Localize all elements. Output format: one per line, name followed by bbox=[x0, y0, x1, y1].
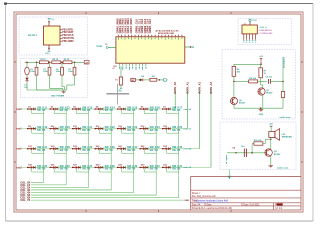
svg-text:SW_PB: SW_PB bbox=[127, 110, 136, 112]
svg-text:audio_in: audio_in bbox=[225, 155, 227, 165]
svg-text:SW_K22: SW_K22 bbox=[105, 126, 116, 129]
key hook wire bbox=[121, 110, 123, 114]
power flag bbox=[249, 21, 251, 25]
key hook wire bbox=[31, 150, 33, 154]
column wire 7 bbox=[178, 114, 180, 198]
U1 bottom pin bbox=[48, 45, 50, 51]
U2 bottom pins bbox=[119, 63, 121, 66]
column wire 5 bbox=[133, 114, 135, 193]
key hook wire bbox=[31, 110, 33, 114]
svg-text:SW_PB: SW_PB bbox=[60, 110, 69, 112]
key hook wire bbox=[76, 129, 78, 133]
svg-text:SW_K35: SW_K35 bbox=[37, 165, 48, 168]
svg-text:row2: row2 bbox=[16, 149, 22, 151]
svg-text:Id: 1/1: Id: 1/1 bbox=[276, 207, 283, 210]
svg-text:SW_K13: SW_K13 bbox=[82, 106, 93, 109]
svg-text:USB_B: USB_B bbox=[260, 27, 268, 29]
hier arrow under gnd tail bbox=[228, 176, 231, 179]
svg-text:VCC: VCC bbox=[51, 19, 56, 21]
capacitor C4 bbox=[61, 62, 63, 64]
svg-text:SW_PB: SW_PB bbox=[105, 150, 114, 152]
svg-text:PB1 INTB: PB1 INTB bbox=[62, 29, 73, 31]
U2 top pin numbers bbox=[117, 35, 119, 37]
diode D4 bbox=[139, 79, 140, 80]
svg-text:SW_PB: SW_PB bbox=[82, 110, 91, 112]
key hook wire bbox=[143, 110, 145, 114]
svg-text:SW_PB: SW_PB bbox=[37, 110, 46, 112]
col bus wire 5 bbox=[31, 192, 134, 194]
svg-text:SW_K14: SW_K14 bbox=[105, 106, 116, 109]
svg-text:row1: row1 bbox=[16, 129, 22, 131]
svg-text:SW_PB: SW_PB bbox=[127, 169, 136, 171]
svg-text:PWR: PWR bbox=[252, 20, 257, 22]
svg-text:SW_K33: SW_K33 bbox=[172, 146, 183, 149]
svg-text:USB-MINI-B: USB-MINI-B bbox=[260, 30, 273, 32]
ground bbox=[63, 90, 65, 92]
capacitor C2 bbox=[36, 62, 38, 64]
svg-text:SW_K24: SW_K24 bbox=[150, 126, 161, 129]
svg-text:SW_K37: SW_K37 bbox=[82, 165, 93, 168]
svg-text:GPB5_CL5: GPB5_CL5 bbox=[148, 18, 152, 33]
svg-text:SW_PB: SW_PB bbox=[172, 150, 181, 152]
row wire 3 bbox=[199, 90, 201, 148]
row line 3 bbox=[21, 148, 200, 150]
column wire 3 bbox=[88, 114, 90, 188]
col bus wire 7 bbox=[31, 197, 179, 199]
svg-text:100n: 100n bbox=[56, 71, 61, 73]
svg-text:row0: row0 bbox=[16, 109, 22, 111]
IC U1 body bbox=[44, 26, 61, 45]
wire bbox=[157, 79, 164, 81]
svg-text:SW_PB: SW_PB bbox=[37, 130, 46, 132]
U1 right pin labels bbox=[60, 29, 62, 31]
svg-text:R10 10k: R10 10k bbox=[254, 140, 262, 142]
key hook wire bbox=[53, 129, 55, 133]
svg-text:SW_PB: SW_PB bbox=[82, 169, 91, 171]
row line 2 bbox=[21, 128, 188, 130]
key hook wire bbox=[143, 129, 145, 133]
global label INT bbox=[131, 78, 136, 81]
column wire 6 bbox=[155, 114, 157, 195]
wire up with label bbox=[282, 57, 284, 81]
svg-text:row_k0: row_k0 bbox=[184, 109, 192, 111]
frame ticks bbox=[85, 12, 87, 14]
svg-text:SW_PB: SW_PB bbox=[60, 169, 69, 171]
svg-text:SW_PB: SW_PB bbox=[172, 130, 181, 132]
svg-text:SW_PB: SW_PB bbox=[82, 130, 91, 132]
hier label arrow bbox=[164, 79, 168, 82]
svg-text:100n: 100n bbox=[68, 71, 73, 73]
svg-text:GND: GND bbox=[259, 114, 264, 116]
svg-text:SW_K19: SW_K19 bbox=[37, 126, 48, 129]
capacitor C1 electrolytic bbox=[26, 62, 28, 67]
transistor Q3 bbox=[265, 149, 272, 156]
key hook wire bbox=[53, 168, 55, 172]
key hook wire bbox=[166, 110, 168, 114]
svg-text:+5V: +5V bbox=[269, 124, 273, 126]
capacitor C8 bbox=[243, 149, 245, 158]
svg-text:SW_K32: SW_K32 bbox=[150, 146, 161, 149]
svg-text:R2 10: R2 10 bbox=[53, 59, 59, 61]
resistor R7 bbox=[260, 64, 262, 68]
svg-text:SW_PB: SW_PB bbox=[105, 169, 114, 171]
svg-text:SW_K23: SW_K23 bbox=[127, 126, 138, 129]
key hook wire bbox=[143, 168, 145, 172]
svg-text:SW_PB: SW_PB bbox=[127, 130, 136, 132]
resistor R8 bbox=[249, 80, 258, 83]
key hook wire bbox=[121, 150, 123, 154]
svg-text:SW_K39: SW_K39 bbox=[127, 165, 138, 168]
svg-text:SW_K20: SW_K20 bbox=[60, 126, 71, 129]
gnd tail wire bbox=[228, 170, 230, 178]
ground box5 bbox=[269, 165, 274, 167]
page edge bbox=[5, 3, 313, 5]
title block bbox=[191, 175, 301, 177]
row wire 1 bbox=[174, 90, 176, 109]
row wire 2 bbox=[187, 90, 189, 128]
svg-text:C6 10n: C6 10n bbox=[266, 77, 273, 79]
svg-text:Monome keyboard clone 4x8: Monome keyboard clone 4x8 bbox=[196, 200, 229, 203]
key hook wire bbox=[98, 168, 100, 172]
power symbol top of U1 bbox=[48, 22, 50, 27]
svg-text:SW_K15: SW_K15 bbox=[127, 106, 138, 109]
svg-text:SW_K41: SW_K41 bbox=[172, 165, 183, 168]
svg-text:row_k3: row_k3 bbox=[184, 167, 192, 169]
wire left branch bbox=[233, 76, 235, 97]
bottom wire bbox=[233, 104, 235, 108]
svg-text:+5V: +5V bbox=[259, 56, 263, 58]
diode D1 bbox=[26, 75, 28, 78]
svg-text:CONN-USB2: CONN-USB2 bbox=[260, 33, 274, 35]
svg-text:GND: GND bbox=[184, 200, 189, 202]
col bus wire 3 bbox=[31, 186, 89, 188]
svg-text:SW_K25: SW_K25 bbox=[172, 126, 183, 129]
group box usb bbox=[238, 19, 291, 45]
resistor R5 bbox=[150, 78, 157, 81]
svg-text:SW_K27: SW_K27 bbox=[37, 146, 48, 149]
key hook wire bbox=[31, 129, 33, 133]
key hook wire bbox=[121, 168, 123, 172]
svg-text:SW_K36: SW_K36 bbox=[60, 165, 71, 168]
top wire bbox=[234, 63, 261, 65]
col bus wire 6 bbox=[31, 194, 156, 196]
label +5V bbox=[84, 61, 89, 64]
svg-text:GPA5_RW5: GPA5_RW5 bbox=[129, 18, 133, 34]
U2 right pin bbox=[185, 46, 191, 48]
row line 1 bbox=[21, 108, 175, 110]
transistor Q2 bbox=[230, 97, 237, 104]
svg-text:GND: GND bbox=[45, 53, 50, 55]
svg-text:audio amp: audio amp bbox=[280, 117, 292, 119]
frame border outer bbox=[14, 12, 303, 212]
key hook wire bbox=[166, 150, 168, 154]
IC U2 body bbox=[116, 37, 185, 63]
key hook wire bbox=[53, 110, 55, 114]
svg-text:R1 10: R1 10 bbox=[40, 59, 46, 61]
capacitor C6 bbox=[267, 79, 269, 84]
svg-text:SW_K30: SW_K30 bbox=[105, 146, 116, 149]
svg-text:SW_PB: SW_PB bbox=[105, 110, 114, 112]
svg-text:SW_PB: SW_PB bbox=[60, 150, 69, 152]
key hook wire bbox=[98, 110, 100, 114]
resistor R3 bbox=[63, 61, 72, 64]
group box power filter bbox=[20, 58, 88, 97]
key hook wire bbox=[98, 150, 100, 154]
collector wire bbox=[270, 139, 272, 149]
svg-text:SW_K17: SW_K17 bbox=[172, 106, 183, 109]
svg-text:row_k2: row_k2 bbox=[184, 149, 192, 151]
svg-text:SW_PB: SW_PB bbox=[150, 110, 159, 112]
resistor R4 vertical bbox=[120, 66, 122, 77]
svg-text:SW_K11: SW_K11 bbox=[37, 106, 47, 109]
svg-text:File: kbd_monome.sch: File: kbd_monome.sch bbox=[192, 195, 217, 198]
resistor R1 bbox=[39, 61, 48, 64]
U2 top pin names bbox=[117, 38, 119, 40]
svg-text:100n: 100n bbox=[43, 71, 48, 73]
row wire 4 bbox=[210, 90, 212, 167]
col bus wire 2 bbox=[31, 184, 66, 186]
resistor R6 bbox=[233, 64, 235, 66]
svg-text:SW_PB: SW_PB bbox=[60, 130, 69, 132]
svg-text:SW_K16: SW_K16 bbox=[150, 106, 161, 109]
speaker LS1 bbox=[269, 132, 275, 138]
key hook wire bbox=[53, 150, 55, 154]
svg-text:SW_K12: SW_K12 bbox=[60, 106, 71, 109]
svg-text:100n: 100n bbox=[30, 71, 35, 73]
col bus wire 8 bbox=[31, 199, 184, 201]
key hook wire bbox=[31, 168, 33, 172]
resistor R9 vertical bbox=[282, 81, 284, 91]
gnd return wires bbox=[36, 79, 38, 90]
key hook wire bbox=[98, 129, 100, 133]
svg-text:Rev:: Rev: bbox=[275, 204, 280, 206]
transistor Q1 bbox=[258, 88, 265, 95]
svg-text:SW_PB: SW_PB bbox=[172, 169, 181, 171]
svg-text:SW_PB: SW_PB bbox=[127, 150, 136, 152]
svg-text:SW_PB: SW_PB bbox=[82, 150, 91, 152]
capacitor C3 bbox=[49, 62, 51, 64]
svg-text:SW_K21: SW_K21 bbox=[82, 126, 93, 129]
key hook wire bbox=[166, 129, 168, 133]
svg-text:Sheet: /: Sheet: / bbox=[192, 192, 201, 195]
svg-text:SW_PB: SW_PB bbox=[105, 130, 114, 132]
ground box4 bbox=[259, 109, 264, 111]
key hook wire bbox=[76, 150, 78, 154]
svg-text:SW_K28: SW_K28 bbox=[60, 146, 71, 149]
column wire 4 bbox=[110, 114, 112, 190]
key hook wire bbox=[143, 150, 145, 154]
svg-text:SW_PB: SW_PB bbox=[37, 169, 46, 171]
svg-text:KiCad E.D.A. eeschema (2010-1: KiCad E.D.A. eeschema (2010-11-30) bbox=[192, 207, 232, 210]
wire bbox=[143, 79, 150, 81]
svg-text:R8 10k: R8 10k bbox=[250, 78, 257, 80]
key hook wire bbox=[76, 110, 78, 114]
svg-text:SW_PB: SW_PB bbox=[172, 110, 181, 112]
svg-text:SW_K40: SW_K40 bbox=[150, 165, 161, 168]
svg-text:row3: row3 bbox=[16, 167, 22, 169]
cursor crosshair bbox=[106, 93, 129, 95]
svg-text:GND_POWER: GND_POWER bbox=[51, 95, 65, 97]
key hook wire bbox=[76, 168, 78, 172]
svg-text:SW_PB: SW_PB bbox=[150, 169, 159, 171]
key hook wire bbox=[166, 168, 168, 172]
frame border inner bbox=[16, 14, 301, 210]
svg-text:PB3 SCLK: PB3 SCLK bbox=[62, 35, 74, 37]
resistor R2 bbox=[52, 61, 61, 64]
svg-text:xx: xx bbox=[119, 90, 121, 92]
svg-text:R3 10: R3 10 bbox=[64, 59, 70, 61]
svg-text:SW_K29: SW_K29 bbox=[82, 146, 93, 149]
capacitor C5 bbox=[74, 62, 76, 64]
wire bbox=[135, 79, 139, 81]
svg-text:SW_K38: SW_K38 bbox=[105, 165, 116, 168]
group box U1 module bbox=[19, 17, 88, 55]
U2 left pin reset bbox=[109, 47, 116, 49]
col bus wire 1 bbox=[31, 181, 44, 183]
svg-text:SW_PB: SW_PB bbox=[150, 150, 159, 152]
audio input wire bbox=[227, 152, 265, 154]
group box oscillator bbox=[222, 50, 295, 119]
group box speaker bbox=[220, 122, 296, 170]
row line 4 bbox=[21, 166, 211, 168]
key hook wire bbox=[121, 129, 123, 133]
resistor R10 feedback bbox=[251, 144, 253, 153]
J1 pins bbox=[243, 34, 245, 40]
column wire 2 bbox=[65, 114, 67, 185]
svg-text:row_k1: row_k1 bbox=[184, 128, 192, 130]
column wire 1 bbox=[43, 114, 45, 183]
svg-text:SW_PB: SW_PB bbox=[150, 130, 159, 132]
svg-text:SW_PB: SW_PB bbox=[37, 150, 46, 152]
col bus wire 4 bbox=[31, 189, 111, 191]
emitter to ground bbox=[270, 156, 272, 166]
svg-text:BC557: BC557 bbox=[239, 103, 246, 105]
svg-text:SW_K31: SW_K31 bbox=[127, 146, 138, 149]
base wire bbox=[234, 80, 249, 82]
wire vcc rail bbox=[25, 61, 82, 63]
